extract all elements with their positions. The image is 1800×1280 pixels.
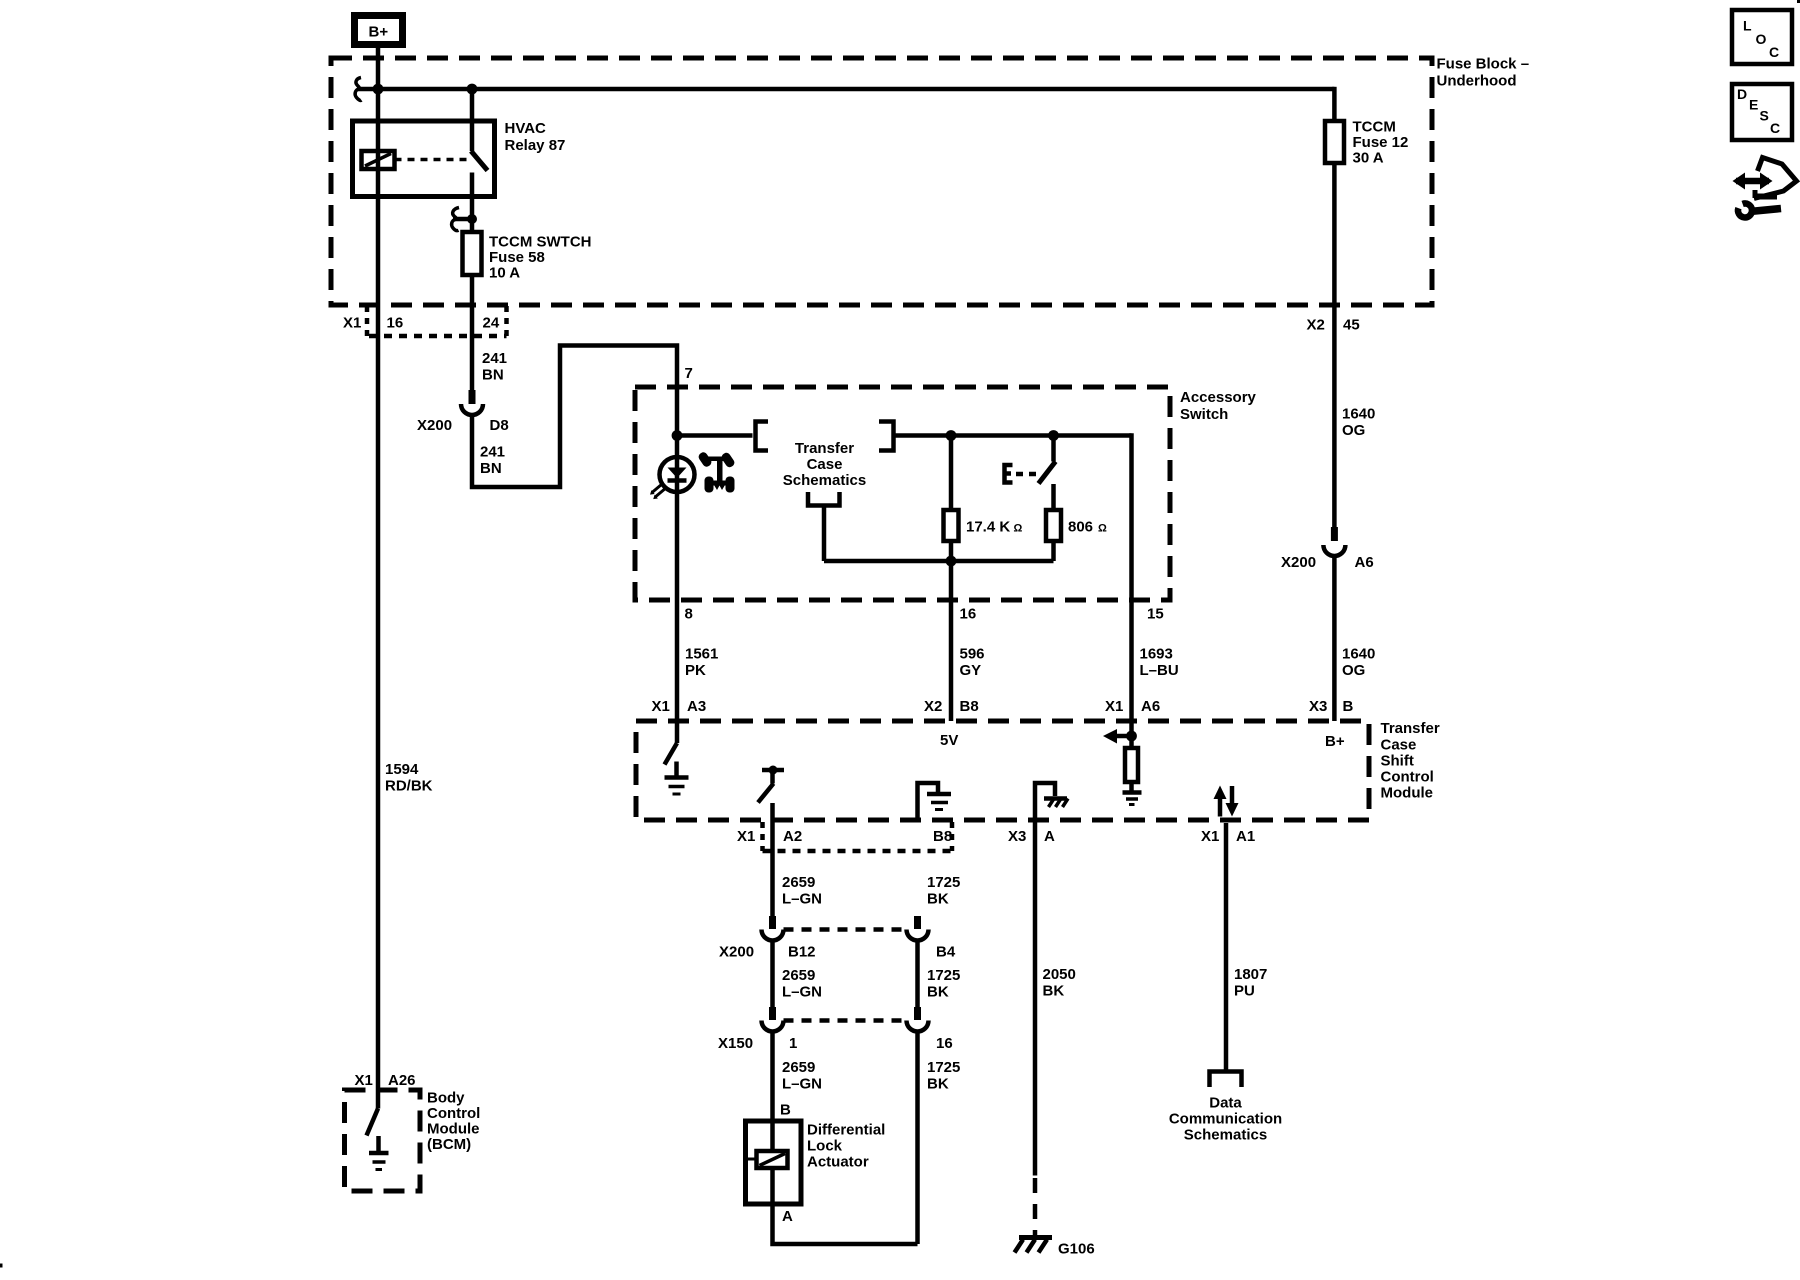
svg-text:A6: A6 bbox=[1355, 554, 1374, 571]
svg-text:BN: BN bbox=[480, 460, 502, 477]
wire 1807 PU from X1 A1 down bbox=[1224, 823, 1229, 1071]
svg-text:Switch: Switch bbox=[1180, 406, 1228, 423]
ground symbol A3 bbox=[665, 775, 689, 780]
output switch symbol at X1 A2 bbox=[762, 768, 784, 773]
wire to left bracket bbox=[677, 433, 753, 438]
svg-text:16: 16 bbox=[936, 1035, 953, 1052]
switch E linkage symbol bbox=[1005, 465, 1013, 483]
svg-text:Transfer: Transfer bbox=[1381, 720, 1440, 737]
switch blade accessory bbox=[1051, 436, 1056, 462]
splice squiggle at bus left end bbox=[355, 78, 361, 101]
wire bus to fuse F12 bbox=[1332, 87, 1337, 121]
wire fuse58 to X200 D8 bbox=[470, 275, 475, 390]
svg-text:1725: 1725 bbox=[927, 874, 960, 891]
svg-text:Schematics: Schematics bbox=[1184, 1127, 1267, 1144]
resistor 806 chain bbox=[1051, 484, 1056, 510]
svg-text:1640: 1640 bbox=[1342, 406, 1375, 423]
wire relay switch input bbox=[470, 89, 475, 151]
wire 1640 OG from fuse12 down bbox=[1332, 163, 1337, 527]
LOC legend box bbox=[1732, 10, 1792, 64]
svg-text:2659: 2659 bbox=[782, 967, 815, 984]
svg-text:BN: BN bbox=[482, 367, 504, 384]
wire 1725 BK through X200 B4 bbox=[914, 916, 921, 929]
serial data arrows at X1 A1 bbox=[1218, 797, 1223, 817]
bracket left of Transfer Case Schematics bbox=[756, 422, 769, 451]
DESC legend box bbox=[1732, 84, 1792, 140]
differential lock actuator box bbox=[746, 1121, 802, 1204]
svg-text:1640: 1640 bbox=[1342, 646, 1375, 663]
svg-text:Transfer: Transfer bbox=[795, 440, 854, 457]
splice S107 at relay output bbox=[452, 208, 459, 231]
svg-text:L: L bbox=[1743, 18, 1752, 34]
svg-text:BK: BK bbox=[927, 1076, 949, 1093]
connector X200 A6 terminal pin bbox=[1331, 527, 1338, 541]
svg-text:806: 806 bbox=[1068, 519, 1093, 536]
svg-text:Actuator: Actuator bbox=[807, 1154, 869, 1171]
svg-text:X200: X200 bbox=[417, 417, 452, 434]
svg-text:TCCM SWTCH: TCCM SWTCH bbox=[489, 234, 591, 251]
fuse F58 TCCM SWTCH Fuse 58 10A bbox=[463, 232, 482, 275]
svg-text:C: C bbox=[1770, 120, 1780, 136]
svg-text:L–BU: L–BU bbox=[1140, 662, 1179, 679]
transfer case shift control module dashed box bbox=[636, 721, 1369, 820]
svg-text:X3: X3 bbox=[1309, 698, 1327, 715]
svg-text:Control: Control bbox=[1381, 769, 1434, 786]
svg-text:Fuse 12: Fuse 12 bbox=[1353, 134, 1409, 151]
svg-text:X1: X1 bbox=[737, 828, 755, 845]
svg-text:A3: A3 bbox=[687, 698, 706, 715]
svg-text:Communication: Communication bbox=[1169, 1111, 1282, 1128]
node junction at LED branch bbox=[672, 430, 683, 441]
svg-text:1725: 1725 bbox=[927, 1059, 960, 1076]
relay U1 HVAC Relay 87 box bbox=[353, 121, 495, 197]
svg-text:Fuse 58: Fuse 58 bbox=[489, 249, 545, 266]
page corner mark top right bbox=[1797, 0, 1800, 3]
accessory switch dashed box bbox=[635, 387, 1170, 600]
svg-text:241: 241 bbox=[480, 444, 505, 461]
wire pin 15 down to X1 A6 bbox=[1129, 433, 1134, 736]
node junction bus/B+ wire bbox=[373, 84, 384, 95]
svg-text:B: B bbox=[1343, 698, 1354, 715]
svg-text:L–GN: L–GN bbox=[782, 984, 822, 1001]
fuse F12 TCCM Fuse 12 30A bbox=[1325, 121, 1344, 163]
svg-text:17.4 K: 17.4 K bbox=[966, 519, 1010, 536]
svg-text:Relay 87: Relay 87 bbox=[505, 137, 566, 154]
svg-text:24: 24 bbox=[483, 315, 500, 332]
node junction 17.4K branch bbox=[946, 430, 957, 441]
svg-text:BK: BK bbox=[1043, 983, 1065, 1000]
svg-text:L–GN: L–GN bbox=[782, 891, 822, 908]
LED emission arrows bbox=[652, 485, 662, 493]
svg-text:7: 7 bbox=[685, 365, 693, 382]
svg-text:Fuse Block –: Fuse Block – bbox=[1437, 56, 1530, 73]
node junction bus/relay switch wire bbox=[467, 84, 478, 95]
svg-text:8: 8 bbox=[685, 606, 693, 623]
relay coil bbox=[362, 151, 395, 169]
svg-text:Case: Case bbox=[807, 456, 843, 473]
wire 1725 BK through X150 pin16 bbox=[914, 1007, 921, 1020]
svg-text:D: D bbox=[1737, 86, 1747, 102]
svg-text:X2: X2 bbox=[1307, 317, 1325, 334]
svg-text:2050: 2050 bbox=[1043, 966, 1076, 983]
svg-text:PK: PK bbox=[685, 662, 706, 679]
wire 241 BN s-bend to accessory switch pin 7 bbox=[472, 346, 677, 744]
svg-text:L–GN: L–GN bbox=[782, 1076, 822, 1093]
svg-text:TCCM: TCCM bbox=[1353, 119, 1396, 136]
switch to ground at X1 A3 bbox=[665, 743, 678, 765]
ground symbol A6 bbox=[1123, 790, 1142, 795]
resistor 17.4K chain bbox=[949, 436, 954, 511]
wire 2659 continues through X200 B12 bbox=[769, 916, 776, 929]
svg-text:2659: 2659 bbox=[782, 874, 815, 891]
svg-text:16: 16 bbox=[387, 315, 404, 332]
body control module dashed box bbox=[345, 1090, 421, 1191]
svg-text:45: 45 bbox=[1343, 317, 1360, 334]
ground bracket at B8 bbox=[918, 783, 939, 818]
wire relay output bbox=[470, 173, 475, 233]
svg-text:5V: 5V bbox=[940, 732, 958, 749]
svg-text:1: 1 bbox=[789, 1035, 797, 1052]
svg-text:15: 15 bbox=[1147, 606, 1164, 623]
svg-text:X1: X1 bbox=[355, 1072, 373, 1089]
svg-text:1693: 1693 bbox=[1140, 646, 1173, 663]
svg-text:A2: A2 bbox=[783, 828, 802, 845]
LED indicator circle bbox=[660, 457, 695, 492]
wire 1594 RD/BK from B+ down to BCM bbox=[376, 48, 381, 1109]
svg-text:10 A: 10 A bbox=[489, 265, 520, 282]
relay linkage dashed bbox=[395, 158, 470, 162]
svg-text:1807: 1807 bbox=[1234, 966, 1267, 983]
bracket to data communication schematics bbox=[1210, 1072, 1242, 1088]
svg-text:O: O bbox=[1756, 31, 1767, 47]
jump-to arrow icon bbox=[1736, 178, 1769, 185]
bracket under Transfer Case Schematics bbox=[808, 492, 840, 506]
svg-text:RD/BK: RD/BK bbox=[385, 778, 433, 795]
svg-text:OG: OG bbox=[1342, 422, 1365, 439]
connector X200 D8 socket arc bbox=[461, 404, 483, 415]
svg-text:Schematics: Schematics bbox=[783, 472, 866, 489]
fuse block underhood dashed box bbox=[331, 58, 1432, 305]
svg-text:A26: A26 bbox=[388, 1072, 416, 1089]
4WD drivetrain icon bbox=[697, 451, 736, 493]
svg-text:X200: X200 bbox=[1281, 554, 1316, 571]
svg-text:1725: 1725 bbox=[927, 967, 960, 984]
relay switch blade bbox=[471, 151, 488, 171]
svg-text:Lock: Lock bbox=[807, 1138, 843, 1155]
svg-text:S: S bbox=[1760, 108, 1769, 124]
svg-text:B+: B+ bbox=[1325, 733, 1345, 750]
svg-text:Underhood: Underhood bbox=[1437, 73, 1517, 90]
battery feed B+ box bbox=[355, 16, 403, 45]
svg-text:Module: Module bbox=[1381, 785, 1434, 802]
chassis bracket at X3 A bbox=[1035, 783, 1055, 818]
inline connector dashed link X200 bbox=[784, 927, 907, 932]
bracket right of Transfer Case Schematics bbox=[879, 422, 894, 451]
svg-text:OG: OG bbox=[1342, 662, 1365, 679]
TEXT_LAYER bbox=[343, 18, 1780, 1258]
svg-text:E: E bbox=[1749, 97, 1758, 113]
svg-text:D8: D8 bbox=[490, 417, 509, 434]
svg-text:Accessory: Accessory bbox=[1180, 389, 1257, 406]
svg-text:A1: A1 bbox=[1236, 828, 1255, 845]
actuator solenoid bbox=[770, 1121, 775, 1151]
svg-text:Data: Data bbox=[1209, 1095, 1242, 1112]
internal resistor at A6 bbox=[1129, 736, 1134, 748]
wire from right bracket across accessory switch bbox=[894, 433, 1132, 438]
LED diode bar bbox=[668, 478, 687, 483]
connector strip X1 16 24 dotted bbox=[365, 306, 370, 336]
connector strip X1 A2 B8 dotted bbox=[760, 822, 765, 851]
svg-text:Ω: Ω bbox=[1098, 523, 1107, 535]
svg-text:Shift: Shift bbox=[1381, 753, 1414, 770]
svg-text:Ω: Ω bbox=[1014, 523, 1023, 535]
svg-text:Control: Control bbox=[427, 1105, 480, 1122]
inline connector dashed link X150 bbox=[784, 1018, 907, 1023]
svg-text:(BCM): (BCM) bbox=[427, 1136, 471, 1153]
ground G106 symbol bbox=[1019, 1235, 1052, 1240]
svg-text:X1: X1 bbox=[652, 698, 670, 715]
svg-text:X150: X150 bbox=[718, 1035, 753, 1052]
svg-text:A: A bbox=[782, 1208, 793, 1225]
svg-text:B: B bbox=[780, 1102, 791, 1119]
svg-text:HVAC: HVAC bbox=[505, 120, 547, 137]
svg-text:G106: G106 bbox=[1058, 1241, 1095, 1258]
chassis ground symbol X3 A bbox=[1044, 796, 1067, 801]
connector X200 D8 terminal pin bbox=[469, 390, 476, 404]
svg-text:B8: B8 bbox=[933, 828, 952, 845]
svg-text:30 A: 30 A bbox=[1353, 150, 1384, 167]
svg-text:X3: X3 bbox=[1008, 828, 1026, 845]
svg-text:C: C bbox=[1769, 44, 1779, 60]
svg-text:GY: GY bbox=[960, 662, 982, 679]
svg-text:B4: B4 bbox=[936, 944, 956, 961]
wire bottom rail of accessory switch bbox=[824, 559, 1054, 564]
svg-text:B12: B12 bbox=[788, 944, 816, 961]
svg-text:X1: X1 bbox=[1105, 698, 1123, 715]
svg-text:Body: Body bbox=[427, 1090, 465, 1107]
wire pin 16 / 5V down to X2 B8 bbox=[949, 561, 954, 721]
connector X200 A6 socket arc bbox=[1323, 545, 1345, 556]
svg-text:X1: X1 bbox=[1201, 828, 1219, 845]
svg-text:B+: B+ bbox=[369, 24, 389, 41]
svg-text:X1: X1 bbox=[343, 315, 361, 332]
internal arrow at X1 A6 bbox=[1116, 734, 1132, 739]
wire 1640 OG to X3 B bbox=[1332, 556, 1337, 721]
svg-text:241: 241 bbox=[482, 350, 507, 367]
svg-text:596: 596 bbox=[960, 646, 985, 663]
svg-text:16: 16 bbox=[960, 606, 977, 623]
node junction switch branch bbox=[1048, 430, 1059, 441]
wire 2659 through X150 pin1 bbox=[769, 1007, 776, 1020]
svg-text:X200: X200 bbox=[719, 944, 754, 961]
svg-text:Module: Module bbox=[427, 1121, 480, 1138]
ground symbol BCM bbox=[369, 1151, 389, 1156]
svg-text:A6: A6 bbox=[1141, 698, 1160, 715]
wire actuator pin A down and to 1725 BK bbox=[773, 1168, 918, 1244]
wrench icon bbox=[1738, 203, 1752, 217]
LED diode triangle bbox=[668, 468, 687, 479]
switch to ground inside BCM bbox=[367, 1109, 379, 1136]
svg-text:BK: BK bbox=[927, 984, 949, 1001]
wire 2050 BK from X3 A down bbox=[1033, 820, 1038, 1176]
svg-text:X2: X2 bbox=[924, 698, 942, 715]
wire 2659 L-GN from A2 down bbox=[770, 803, 775, 916]
wire bus inside fuse block bbox=[357, 87, 1334, 92]
svg-text:1594: 1594 bbox=[385, 761, 419, 778]
svg-text:2659: 2659 bbox=[782, 1059, 815, 1076]
svg-text:A: A bbox=[1044, 828, 1055, 845]
svg-text:1561: 1561 bbox=[685, 646, 718, 663]
page mark bottom left bbox=[0, 1264, 3, 1268]
ground symbol B8 bbox=[927, 792, 951, 797]
svg-text:B8: B8 bbox=[960, 698, 979, 715]
svg-text:BK: BK bbox=[927, 891, 949, 908]
svg-text:PU: PU bbox=[1234, 983, 1255, 1000]
svg-text:Case: Case bbox=[1381, 737, 1417, 754]
svg-text:Differential: Differential bbox=[807, 1122, 885, 1139]
